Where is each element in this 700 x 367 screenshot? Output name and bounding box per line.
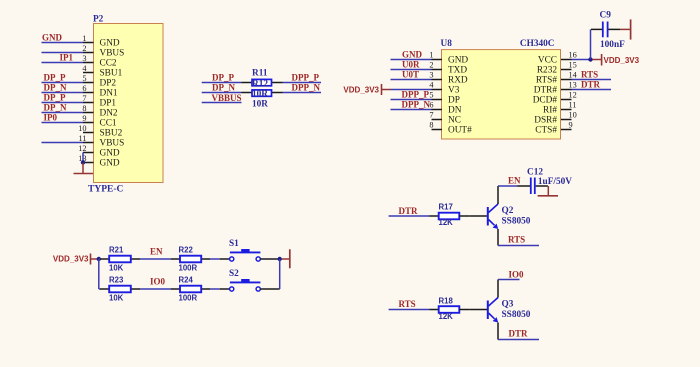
svg-text:10K: 10K bbox=[109, 294, 124, 303]
svg-text:IP1: IP1 bbox=[60, 53, 74, 63]
svg-text:100R: 100R bbox=[179, 264, 198, 273]
svg-text:OUT#: OUT# bbox=[448, 126, 472, 136]
svg-text:R232: R232 bbox=[537, 66, 557, 76]
svg-text:TYPE-C: TYPE-C bbox=[88, 185, 124, 195]
svg-text:DP_P: DP_P bbox=[44, 73, 66, 83]
svg-text:SS8050: SS8050 bbox=[502, 310, 531, 320]
svg-text:DP_N: DP_N bbox=[212, 83, 235, 93]
svg-text:DCD#: DCD# bbox=[533, 96, 558, 106]
svg-text:DPP_N: DPP_N bbox=[402, 100, 431, 110]
svg-text:DN: DN bbox=[448, 106, 462, 116]
svg-text:6: 6 bbox=[82, 84, 86, 93]
svg-text:12K: 12K bbox=[439, 218, 454, 227]
svg-text:10: 10 bbox=[78, 124, 86, 133]
svg-text:VCC: VCC bbox=[538, 56, 557, 66]
svg-text:1uF/50V: 1uF/50V bbox=[538, 177, 572, 187]
svg-text:2: 2 bbox=[82, 44, 86, 53]
svg-text:5: 5 bbox=[429, 91, 433, 100]
svg-text:11: 11 bbox=[79, 134, 87, 143]
svg-text:VDD_3V3: VDD_3V3 bbox=[53, 254, 89, 263]
svg-text:R11: R11 bbox=[252, 69, 268, 79]
svg-text:GND: GND bbox=[100, 159, 120, 169]
svg-text:DTR: DTR bbox=[509, 329, 529, 339]
svg-text:GND: GND bbox=[448, 56, 468, 66]
svg-text:DN1: DN1 bbox=[100, 89, 118, 99]
svg-text:DP_N: DP_N bbox=[44, 103, 67, 113]
svg-text:13: 13 bbox=[569, 81, 577, 90]
svg-text:10K: 10K bbox=[109, 264, 124, 273]
svg-text:DP_P: DP_P bbox=[212, 73, 234, 83]
svg-text:14: 14 bbox=[569, 71, 578, 80]
svg-text:R12: R12 bbox=[252, 79, 268, 89]
svg-text:RTS#: RTS# bbox=[536, 76, 557, 86]
svg-text:10R: 10R bbox=[252, 99, 268, 109]
svg-text:10: 10 bbox=[569, 111, 577, 120]
svg-text:EN: EN bbox=[508, 176, 521, 186]
svg-text:VBUS: VBUS bbox=[100, 139, 125, 149]
svg-text:Q3: Q3 bbox=[502, 299, 514, 309]
svg-text:RTS: RTS bbox=[581, 70, 598, 80]
svg-text:DPP_N: DPP_N bbox=[292, 83, 321, 93]
svg-text:R18: R18 bbox=[439, 296, 454, 305]
svg-text:RTS: RTS bbox=[399, 299, 416, 309]
svg-text:EN: EN bbox=[150, 247, 163, 257]
svg-text:VDD_3V3: VDD_3V3 bbox=[343, 85, 379, 94]
svg-text:DTR: DTR bbox=[581, 80, 601, 90]
svg-text:DPP_P: DPP_P bbox=[402, 90, 430, 100]
svg-text:12K: 12K bbox=[439, 312, 454, 321]
svg-text:9: 9 bbox=[569, 121, 573, 130]
svg-text:IO0: IO0 bbox=[509, 270, 525, 280]
svg-text:U8: U8 bbox=[441, 39, 453, 49]
svg-text:P2: P2 bbox=[93, 14, 104, 24]
svg-text:DTR#: DTR# bbox=[534, 86, 558, 96]
svg-text:S1: S1 bbox=[229, 239, 239, 249]
svg-text:U0R: U0R bbox=[402, 60, 420, 70]
svg-text:RI#: RI# bbox=[543, 106, 557, 116]
svg-text:DP_N: DP_N bbox=[44, 83, 67, 93]
svg-text:VDD_3V3: VDD_3V3 bbox=[604, 56, 640, 65]
svg-text:GND: GND bbox=[100, 149, 120, 159]
svg-text:IP0: IP0 bbox=[44, 113, 58, 123]
svg-text:R21: R21 bbox=[109, 246, 124, 255]
svg-text:100R: 100R bbox=[179, 294, 198, 303]
svg-text:12: 12 bbox=[569, 91, 577, 100]
svg-text:DP: DP bbox=[448, 96, 460, 106]
svg-text:3: 3 bbox=[82, 54, 86, 63]
svg-text:Q2: Q2 bbox=[502, 206, 514, 216]
svg-text:CTS#: CTS# bbox=[535, 126, 557, 136]
svg-text:DP2: DP2 bbox=[100, 79, 117, 89]
svg-text:R22: R22 bbox=[179, 246, 194, 255]
svg-text:100nF: 100nF bbox=[600, 40, 625, 50]
svg-text:CC1: CC1 bbox=[100, 119, 117, 129]
svg-text:12: 12 bbox=[78, 144, 86, 153]
svg-text:8: 8 bbox=[82, 104, 86, 113]
svg-text:U0T: U0T bbox=[402, 70, 419, 80]
svg-text:C9: C9 bbox=[600, 11, 612, 21]
svg-text:VBBUS: VBBUS bbox=[212, 93, 242, 103]
svg-text:2: 2 bbox=[429, 61, 433, 70]
svg-text:R23: R23 bbox=[109, 276, 124, 285]
svg-text:SBU2: SBU2 bbox=[100, 129, 123, 139]
svg-text:V3: V3 bbox=[448, 86, 460, 96]
svg-text:S2: S2 bbox=[229, 269, 239, 279]
svg-text:7: 7 bbox=[429, 111, 433, 120]
svg-text:1: 1 bbox=[82, 34, 86, 43]
svg-text:VBUS: VBUS bbox=[100, 49, 125, 59]
svg-text:IO0: IO0 bbox=[150, 277, 166, 287]
svg-text:15: 15 bbox=[569, 61, 577, 70]
svg-text:10R: 10R bbox=[252, 90, 268, 100]
svg-text:CC2: CC2 bbox=[100, 59, 117, 69]
svg-text:DSR#: DSR# bbox=[534, 116, 557, 126]
svg-text:GND: GND bbox=[100, 39, 120, 49]
svg-text:R17: R17 bbox=[439, 202, 453, 211]
svg-text:GND: GND bbox=[402, 50, 423, 60]
svg-text:TXD: TXD bbox=[448, 66, 467, 76]
svg-text:GND: GND bbox=[42, 33, 63, 43]
svg-text:R24: R24 bbox=[179, 276, 194, 285]
svg-text:CH340C: CH340C bbox=[520, 39, 555, 49]
svg-text:SS8050: SS8050 bbox=[502, 216, 531, 226]
svg-text:DP_P: DP_P bbox=[44, 93, 66, 103]
svg-text:NC: NC bbox=[448, 116, 461, 126]
svg-text:RXD: RXD bbox=[448, 76, 468, 86]
svg-text:SBU1: SBU1 bbox=[100, 69, 123, 79]
svg-text:RTS: RTS bbox=[508, 235, 525, 245]
svg-text:DPP_P: DPP_P bbox=[292, 73, 320, 83]
svg-text:5: 5 bbox=[82, 74, 86, 83]
svg-text:DTR: DTR bbox=[399, 206, 419, 216]
svg-text:1: 1 bbox=[429, 51, 433, 60]
svg-text:16: 16 bbox=[569, 51, 577, 60]
svg-text:9: 9 bbox=[82, 114, 86, 123]
svg-text:3: 3 bbox=[429, 71, 433, 80]
svg-text:DP1: DP1 bbox=[100, 99, 117, 109]
svg-text:7: 7 bbox=[82, 94, 86, 103]
svg-text:DN2: DN2 bbox=[100, 109, 118, 119]
svg-text:11: 11 bbox=[569, 101, 577, 110]
svg-text:8: 8 bbox=[429, 121, 433, 130]
